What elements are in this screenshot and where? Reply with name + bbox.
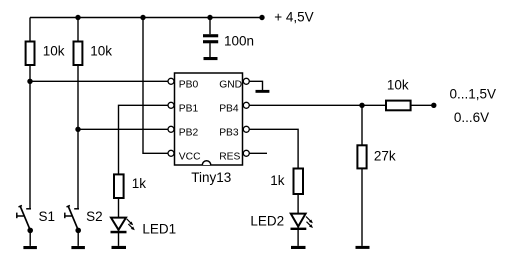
svg-text:1k: 1k [132, 176, 147, 191]
S1 actuator bar [16, 213, 18, 219]
resistor R2 10k [74, 42, 83, 66]
wire column1 rail to R1 [29, 18, 31, 42]
svg-text:LED1: LED1 [142, 222, 176, 237]
pin circle VCC [168, 150, 174, 156]
capacitor C1 100n bottom plate [203, 40, 218, 43]
LED2 light arrow 1 [306, 217, 313, 224]
node junction dot rail-VCC [140, 15, 145, 20]
svg-text:10k: 10k [90, 44, 112, 59]
wire PB3 to R4 [249, 129, 298, 168]
resistor R5 10k horizontal [386, 101, 411, 111]
node C junction dot PB4-R6 [359, 103, 364, 108]
wire node A to PB0 [30, 80, 168, 82]
svg-text:PB3: PB3 [219, 128, 239, 139]
svg-text:PB4: PB4 [219, 104, 239, 115]
wire S1 to ground [29, 230, 31, 246]
S2 lever [68, 206, 78, 230]
LED2 light arrow 2 [307, 222, 314, 228]
S2 fixed contact tick [74, 208, 79, 210]
node terminal dot output [431, 103, 436, 108]
svg-text:27k: 27k [374, 148, 396, 163]
ground below LED2 [291, 246, 306, 249]
resistor R4 1k [294, 169, 304, 195]
S2 actuator stem [65, 215, 72, 217]
LED2 diode triangle [291, 214, 306, 227]
S1 fixed contact tick [26, 208, 31, 210]
S1 lever [20, 206, 30, 230]
pin circle PB1 [168, 102, 174, 108]
svg-text:1k: 1k [270, 173, 285, 188]
resistor R3 1k [114, 174, 124, 198]
S1 actuator stem [17, 215, 24, 217]
pin circle PB2 [168, 126, 174, 132]
wire R3 to LED1 to ground [118, 198, 120, 246]
wire column1 R1 to S1 [29, 65, 31, 209]
resistor R1 10k [26, 42, 35, 66]
wire PB4 to R5 [249, 104, 386, 106]
svg-text:10k: 10k [387, 78, 409, 93]
svg-text:100n: 100n [224, 33, 254, 48]
wire C1 to ground [209, 43, 211, 57]
ground below LED1 [112, 246, 127, 249]
wire PB1 to R3 [119, 105, 169, 174]
svg-text:S2: S2 [86, 209, 103, 224]
wire R6 to ground [361, 168, 363, 246]
S2 actuator bar [64, 213, 66, 219]
svg-text:S1: S1 [39, 209, 56, 224]
resistor R6 27k [357, 145, 366, 168]
pin circle GND [243, 78, 249, 84]
pin circle PB3 [243, 126, 249, 132]
ground below C1 [204, 57, 218, 60]
ground below R6 [356, 246, 370, 249]
op-amp U1 IC body Tiny13 [175, 73, 243, 165]
wire node C to R6 [361, 105, 363, 145]
node junction dot rail-C1 [207, 15, 212, 20]
svg-text:Tiny13: Tiny13 [191, 170, 231, 185]
LED1 diode triangle [111, 218, 126, 230]
pin circle PB0 [168, 78, 174, 84]
wire R5 to output [411, 104, 434, 106]
node A junction dot R1-PB0 [27, 79, 32, 84]
svg-text:VCC: VCC [179, 152, 201, 163]
svg-text:PB1: PB1 [179, 104, 199, 115]
pin circle RES [243, 150, 249, 156]
wire rail to C1 [209, 18, 211, 35]
S1 moving contact dot [27, 228, 33, 234]
LED1 cathode bar [111, 231, 127, 234]
LED1 light arrow 2 [128, 224, 135, 230]
wire RES stub [249, 152, 267, 154]
svg-text:RES: RES [219, 152, 240, 163]
svg-text:0...1,5V: 0...1,5V [450, 87, 497, 102]
svg-text:0...6V: 0...6V [454, 110, 489, 125]
node terminal dot +4,5V [259, 15, 264, 20]
ground below GND pin [256, 90, 270, 93]
switch S2 [65, 206, 79, 231]
wire node B to PB2 [78, 128, 168, 130]
svg-text:PB0: PB0 [179, 80, 199, 91]
ground below S1 [23, 246, 37, 249]
switch S1 [17, 206, 31, 231]
S1 lever tip tick [19, 206, 22, 207]
svg-text:LED2: LED2 [250, 214, 284, 229]
wire top supply rail [30, 17, 262, 19]
wire column2 R2 to S2 [77, 65, 79, 209]
svg-text:+ 4,5V: + 4,5V [274, 10, 313, 25]
S2 moving contact dot [75, 228, 81, 234]
node junction dot rail-R2 [75, 15, 80, 20]
capacitor C1 100n top plate [203, 34, 218, 37]
node B junction dot R2-PB2 [75, 127, 80, 132]
LED1 light arrow 1 [127, 219, 134, 225]
svg-text:GND: GND [219, 80, 242, 91]
wire S2 to ground [77, 230, 79, 246]
LED2 cathode bar [291, 228, 307, 230]
S2 lever tip tick [67, 206, 70, 207]
wire R4 to LED2 to ground [297, 194, 299, 246]
ground below S2 [71, 246, 85, 249]
pin circle PB4 [243, 102, 249, 108]
wire rail to VCC [143, 18, 168, 154]
svg-text:10k: 10k [43, 44, 65, 59]
wire rail to R2 [77, 18, 79, 42]
svg-text:PB2: PB2 [179, 128, 199, 139]
wire GND pin to ground [249, 81, 262, 90]
